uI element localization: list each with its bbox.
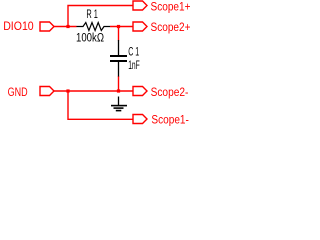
- svg-text:GND: GND: [8, 87, 28, 99]
- resistor R1: [77, 23, 111, 31]
- connector GND: [40, 87, 54, 96]
- connector Scope1-: [133, 115, 147, 124]
- svg-text:Scope2-: Scope2-: [151, 87, 189, 99]
- wire: node B down to C1: [118, 27, 120, 41]
- connector DIO10: [40, 22, 54, 31]
- svg-text:C 1: C 1: [128, 47, 139, 59]
- svg-text:DIO10: DIO10: [3, 21, 34, 33]
- svg-text:Scope1+: Scope1+: [151, 1, 191, 13]
- wire: GND rail: [54, 90, 133, 92]
- wire: C1 bottom to GND rail: [118, 76, 120, 91]
- wire: GND rail down to Scope1-: [68, 91, 133, 119]
- connector Scope1+: [133, 1, 147, 10]
- connector Scope2+: [133, 22, 147, 31]
- svg-text:1nF: 1nF: [128, 60, 140, 72]
- node D junction dot: [117, 89, 120, 92]
- svg-text:Scope2+: Scope2+: [151, 22, 191, 34]
- ground: [111, 97, 127, 111]
- svg-text:R 1: R 1: [86, 9, 98, 21]
- wire: node A up to top rail to Scope1+: [68, 6, 133, 28]
- wire: R1 output to Scope2+: [110, 26, 133, 28]
- capacitor C1: [110, 40, 127, 77]
- node C junction dot: [66, 89, 69, 92]
- node B junction dot: [117, 25, 120, 28]
- svg-text:100kΩ: 100kΩ: [76, 33, 104, 45]
- svg-text:Scope1-: Scope1-: [151, 114, 189, 126]
- wire: DIO10 to node A: [54, 26, 77, 28]
- node A junction dot: [66, 25, 69, 28]
- connector Scope2-: [133, 87, 147, 96]
